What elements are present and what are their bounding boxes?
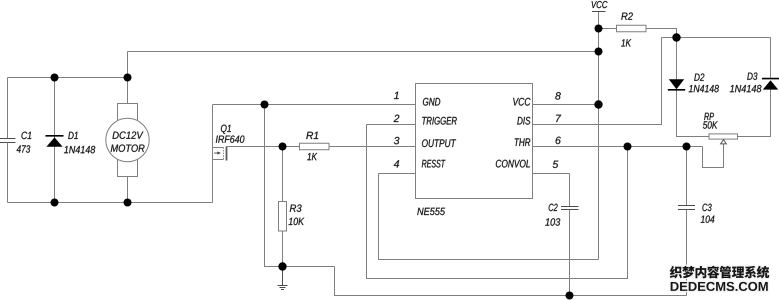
label pin RESST	[422, 160, 446, 168]
junction dot D1 top	[51, 74, 59, 82]
junction dot ground node	[278, 262, 286, 270]
junction dot drain-ground	[261, 101, 269, 109]
diode D3 symbol	[762, 79, 779, 90]
label RP value	[703, 121, 718, 128]
junction dot R2 tap	[595, 25, 603, 33]
diode D3 leads	[738, 38, 771, 137]
transistor Q1 gate bar	[226, 147, 228, 161]
potentiometer RP body	[709, 134, 738, 139]
label pin CONVOL	[496, 160, 530, 168]
junction dot trigger-thr	[624, 143, 632, 151]
resistor R2 leads	[599, 29, 677, 38]
diode D1 wire	[54, 78, 56, 203]
label C2 ref	[549, 204, 558, 211]
label pin DIS	[517, 117, 530, 125]
label pin number 6	[556, 137, 561, 144]
transistor Q1 gate arrow	[214, 151, 221, 154]
label pin TRIGGER	[422, 117, 456, 125]
wire left top rail	[8, 77, 128, 79]
label R2 value	[621, 39, 631, 46]
label pin number 5	[553, 161, 559, 168]
label C3 value	[701, 215, 715, 222]
wire trigger route	[367, 125, 628, 279]
capacitor C3 lead bottom	[686, 210, 688, 296]
capacitor C1	[0, 139, 16, 203]
label pin THR	[515, 138, 531, 146]
wire VCC pin8	[533, 104, 599, 106]
potentiometer RP wiper arrow	[721, 140, 727, 144]
wire top rail to VCC	[128, 51, 599, 53]
wire TRIGGER pin2	[367, 124, 416, 126]
junction dot top rail VCC	[595, 48, 603, 56]
label C1 value	[17, 145, 31, 152]
wire left rail top segment	[7, 78, 9, 139]
watermark chinese text	[670, 266, 769, 279]
watermark DEDECMS.COM	[671, 282, 768, 291]
junction dot diode node	[672, 33, 680, 41]
wire THR pin6	[533, 146, 703, 148]
diode D2 symbol	[668, 79, 685, 90]
junction dot D1 bottom	[51, 199, 59, 207]
transistor Q1 drain lead	[212, 105, 214, 148]
label pin number 2	[394, 115, 400, 122]
capacitor C3 plates	[678, 206, 695, 210]
wire VCC stub vertical	[598, 12, 600, 260]
transistor Q1 body box	[213, 148, 224, 160]
ground symbol	[278, 267, 288, 290]
label pin OUTPUT	[422, 139, 456, 147]
diode D2 leads	[677, 38, 710, 137]
label pin number 1	[394, 92, 399, 99]
wire motor top vertical	[127, 52, 129, 104]
resistor R3 leads	[282, 147, 284, 267]
wire DIS pin7	[533, 38, 662, 125]
label C2 value	[545, 218, 560, 225]
label D3 value	[730, 85, 762, 92]
label pin number 7	[556, 115, 561, 122]
label pin number 3	[394, 137, 400, 144]
label Q1 ref	[221, 125, 231, 134]
capacitor C2 lead bottom	[569, 210, 571, 296]
label R3 value	[289, 218, 305, 225]
motor M1 body	[106, 104, 149, 177]
wire motor bottom vertical	[127, 177, 129, 203]
label D1 ref	[68, 132, 78, 139]
wire drain to GND pin1	[213, 104, 416, 106]
label D1 value	[64, 146, 95, 153]
label pin VCC	[513, 98, 530, 106]
transistor Q1 source lead	[212, 160, 214, 203]
power VCC symbol bar	[592, 11, 606, 13]
diode D1 symbol	[46, 136, 64, 147]
wire CONVOL pin5	[533, 173, 570, 175]
label motor line1	[112, 131, 143, 138]
label motor line2	[111, 144, 145, 151]
junction dot pin8 VCC	[594, 100, 602, 108]
label D2 value	[689, 85, 719, 92]
capacitor C2 lead top	[569, 174, 571, 207]
resistor R2 body	[617, 25, 647, 32]
junction dot C2 bottom	[566, 292, 574, 300]
label D3 ref	[747, 72, 757, 79]
junction dot R3 top	[279, 143, 287, 151]
label pin GND	[423, 98, 440, 106]
wire resst route	[379, 174, 599, 260]
label R1 value	[307, 153, 317, 160]
wire diode node rail	[662, 37, 771, 39]
capacitor C3 lead top	[686, 147, 688, 206]
wire gate row / OUTPUT pin3	[227, 146, 416, 148]
capacitor C2 plates	[561, 207, 579, 210]
IC U1 NE555 box	[416, 84, 533, 199]
wire bottom ground rail	[335, 267, 687, 296]
label Q1 value	[216, 135, 245, 142]
label RP ref	[704, 113, 714, 120]
wire RESST pin4	[379, 173, 416, 175]
label VCC power	[592, 1, 608, 8]
label R3 ref	[290, 204, 302, 211]
resistor R1 body	[300, 143, 330, 150]
junction dot motor top	[124, 74, 132, 82]
label IC name NE555	[417, 208, 445, 215]
label D2 ref	[694, 73, 704, 80]
label R1 ref	[306, 132, 318, 139]
wire left bottom rail	[8, 202, 213, 204]
label pin number 8	[555, 92, 561, 99]
potentiometer RP wiper route	[703, 144, 724, 168]
junction dot motor bottom	[124, 199, 132, 207]
resistor R3 body	[279, 202, 287, 232]
label pin number 4	[394, 160, 399, 167]
junction dot C3 top	[683, 143, 691, 151]
label C3 ref	[702, 204, 711, 211]
label C1 ref	[21, 132, 31, 139]
label R2 ref	[621, 12, 633, 19]
wire ground branch vertical	[265, 105, 335, 267]
